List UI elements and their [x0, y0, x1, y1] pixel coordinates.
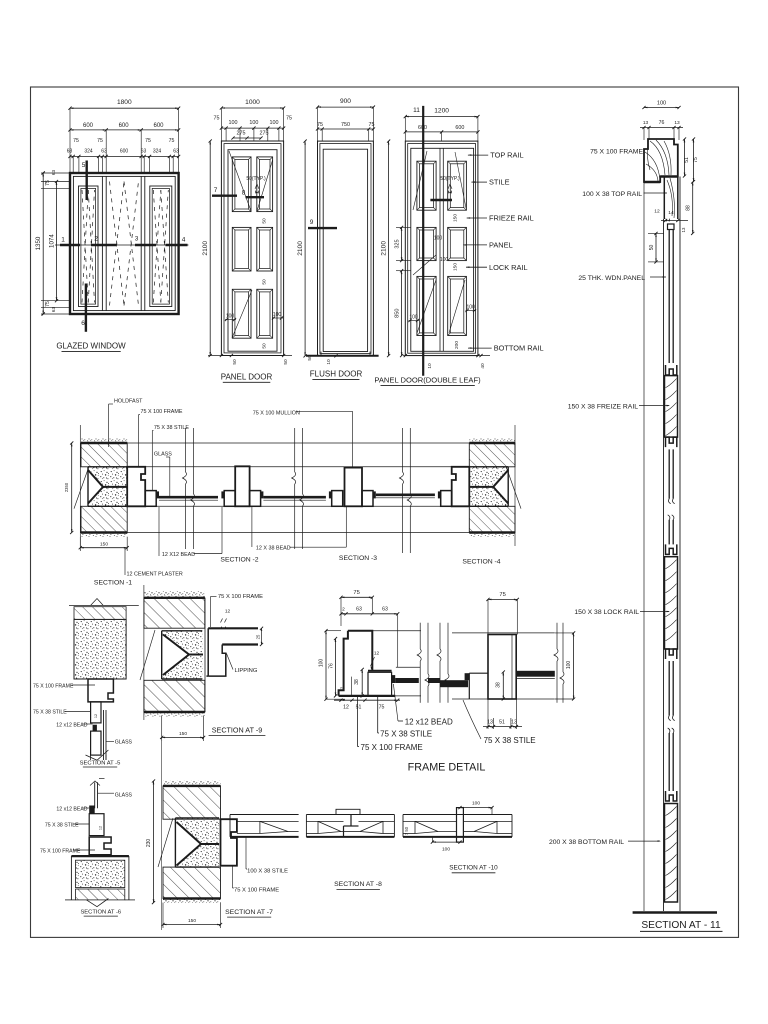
svg-text:13: 13 [674, 120, 680, 126]
dimension 100 bottom section 10 [431, 837, 462, 853]
section 8 meeting stiles plan [306, 809, 394, 837]
small dimensions double leaf door [408, 214, 476, 349]
svg-text:1800: 1800 [117, 99, 132, 106]
break symbol 3 window section [400, 428, 412, 553]
svg-text:12: 12 [343, 705, 349, 711]
dimension 38 frame detail left [354, 668, 364, 698]
svg-text:63: 63 [382, 607, 388, 613]
section 9 wall block [140, 585, 205, 720]
svg-text:100 X 38 STILE: 100 X 38 STILE [247, 869, 288, 875]
label 12 x12 BEAD frame detail [393, 684, 453, 726]
frame detail left jamb [339, 631, 419, 696]
double leaf door six panels [417, 161, 467, 335]
section 6 glass [90, 779, 105, 809]
svg-text:PANEL DOOR(DOUBLE LEAF): PANEL DOOR(DOUBLE LEAF) [374, 376, 481, 385]
svg-text:325: 325 [395, 239, 401, 248]
dimension 1200 double leaf door [404, 108, 480, 119]
svg-text:GLASS: GLASS [115, 740, 133, 746]
svg-text:12 CEMENT PLASTER: 12 CEMENT PLASTER [127, 572, 183, 578]
svg-text:600: 600 [153, 123, 164, 129]
callout 75 X 38 STILE section 5 [33, 710, 91, 716]
glazed window centre fixed pane [110, 182, 139, 306]
title PANEL DOOR DOUBLE LEAF [374, 376, 481, 386]
section 7 wall block [158, 781, 221, 903]
callout 75 X 100 FRAME section 7 [233, 866, 280, 894]
frame detail middle panel lines [428, 678, 440, 683]
svg-text:STILE: STILE [489, 178, 510, 187]
svg-text:100: 100 [442, 847, 450, 853]
section marker 11 cut line [413, 106, 423, 376]
callout BOTTOM RAIL [468, 344, 544, 353]
svg-text:12 X12 BEAD: 12 X12 BEAD [162, 552, 195, 558]
svg-text:12: 12 [654, 209, 660, 215]
sub dimensions panel door [214, 108, 293, 141]
glass line pane 1 [159, 497, 218, 500]
callout 12 x12 BEAD section 6 [56, 807, 89, 813]
freize rail connector top section 11 [666, 365, 677, 375]
extension lines left glazed window [41, 171, 70, 315]
section 7 frame [221, 819, 237, 866]
dimension 50 section 10 [404, 826, 409, 835]
section 6 sill [65, 856, 135, 907]
glass line pane 2 [263, 497, 326, 500]
svg-text:324: 324 [84, 149, 93, 155]
svg-text:38: 38 [496, 682, 502, 688]
svg-text:75: 75 [45, 180, 51, 186]
section 6 bead [89, 806, 95, 814]
dimension 75 frame detail left [339, 590, 374, 626]
callout 75 X 38 STILE section 6 [45, 823, 89, 829]
dimension 1350 glazed window [35, 171, 45, 315]
break symbol 2 window section [292, 428, 304, 549]
stile and bead at right frame [438, 491, 452, 507]
svg-text:LOCK RAIL: LOCK RAIL [489, 263, 528, 272]
dimension 12-51-75 frame detail [334, 699, 400, 711]
svg-text:11: 11 [413, 107, 420, 114]
svg-text:850: 850 [395, 308, 401, 317]
svg-text:75 X 100 FRAME: 75 X 100 FRAME [218, 594, 263, 600]
label 150 X 38 LOCK RAIL [574, 609, 670, 616]
svg-text:SECTION AT -7: SECTION AT -7 [225, 909, 273, 916]
svg-text:50(TYP.): 50(TYP.) [440, 176, 460, 182]
svg-text:75 X 100 MULLION: 75 X 100 MULLION [253, 411, 300, 417]
panel below top rail section 11 [669, 230, 673, 364]
dimension 2 frame detail [340, 686, 345, 689]
svg-text:12 x12 BEAD: 12 x12 BEAD [56, 723, 87, 729]
dimension 13-51-13 frame detail right [483, 699, 522, 729]
svg-text:275: 275 [260, 131, 269, 137]
section 9 door leaf [208, 627, 263, 646]
svg-text:75: 75 [369, 122, 375, 128]
svg-text:324: 324 [153, 149, 162, 155]
title SECTION -1 [94, 580, 132, 587]
double leaf door frame and leaves [405, 141, 478, 356]
label 150 X 38 FREIZE RAIL [568, 403, 670, 410]
svg-text:2: 2 [342, 607, 345, 613]
svg-text:75 X 38 STILE: 75 X 38 STILE [484, 736, 536, 745]
svg-text:SECTION -1: SECTION -1 [94, 580, 132, 587]
svg-text:38: 38 [354, 679, 360, 685]
panel break symbol 2 section 11 [668, 716, 675, 733]
svg-text:12: 12 [225, 609, 231, 615]
dimension 2-63-63 frame detail [339, 607, 399, 668]
svg-text:SECTION AT -10: SECTION AT -10 [449, 865, 498, 872]
stile and bead at left frame [145, 491, 159, 507]
svg-text:75 X 100 FRAME: 75 X 100 FRAME [141, 409, 183, 415]
callout 12 X 38 BEAD window section [252, 507, 346, 552]
glazing bead section 11 [668, 224, 675, 230]
callout 75 X 100 FRAME section 6 [40, 849, 95, 855]
panel lower section 11 [669, 733, 673, 791]
bottom rail section 11 [665, 804, 678, 903]
dimension 100 frame detail left [319, 629, 345, 701]
dimension 2350 window section [64, 441, 73, 534]
left wall block window section [74, 439, 127, 537]
svg-text:8: 8 [242, 190, 246, 197]
title GLAZED WINDOW [56, 342, 126, 352]
svg-text:PANEL: PANEL [489, 241, 513, 250]
break symbol 1 window section [183, 428, 195, 549]
dimension 76 frame detail [329, 637, 338, 698]
svg-text:100: 100 [270, 120, 279, 126]
dimension 600-600-600 glazed window [68, 123, 180, 132]
title SECTION AT -8 [334, 881, 382, 890]
svg-text:75 X 100 FRAME: 75 X 100 FRAME [33, 684, 74, 690]
svg-text:10: 10 [427, 363, 433, 369]
lock rail section 11 [665, 557, 678, 649]
svg-text:7 50: 7 50 [404, 826, 409, 835]
svg-text:63: 63 [101, 149, 107, 155]
svg-text:50(TYP.): 50(TYP.) [246, 176, 266, 182]
wall line section 11 [643, 182, 645, 911]
label 75 X 100 FRAME section 11 [590, 148, 643, 155]
callout PANEL [463, 241, 512, 250]
callout 75 X 38 STILE window section [152, 425, 189, 491]
svg-text:12 x12 BEAD: 12 x12 BEAD [405, 717, 453, 726]
section 5 sill break [86, 750, 109, 760]
callout GLASS section 5 [106, 740, 133, 746]
svg-text:12: 12 [99, 826, 103, 830]
svg-text:150 X 38 LOCK RAIL: 150 X 38 LOCK RAIL [574, 609, 639, 616]
glazed window left casement sash [79, 186, 99, 307]
svg-text:5: 5 [82, 162, 86, 169]
section marker 9 flush door [308, 219, 337, 228]
svg-text:75: 75 [286, 116, 292, 122]
svg-text:GLASS: GLASS [154, 452, 172, 458]
glazed window elevation frame [70, 173, 179, 314]
panel door six panels [232, 157, 272, 338]
sub dimensions 600-600 double leaf door [404, 117, 480, 142]
svg-text:63: 63 [67, 149, 73, 155]
svg-text:1200: 1200 [434, 108, 449, 115]
label 75 X 38 STILE frame detail right [463, 700, 536, 745]
dimension 38 frame detail right [496, 670, 505, 700]
svg-text:50: 50 [262, 343, 268, 349]
dimension 75 right section 11 [692, 137, 699, 183]
title SECTION -2 [220, 557, 258, 564]
svg-text:75 X 38 STILE: 75 X 38 STILE [33, 710, 67, 716]
section marker 6 glazed window [81, 284, 86, 332]
svg-text:100: 100 [249, 120, 258, 126]
svg-text:76: 76 [329, 663, 335, 669]
dimension 50 section 11 [648, 232, 664, 264]
dimension 75 bottom glazed window [45, 301, 56, 312]
section 6 frame [89, 837, 111, 855]
callout GLASS window section [154, 452, 172, 497]
svg-text:75: 75 [73, 138, 79, 144]
svg-text:51: 51 [499, 719, 505, 725]
title SECTION AT -5 [80, 761, 121, 768]
wall face lines window section [80, 443, 469, 533]
callout LOCK RAIL [466, 263, 528, 272]
svg-text:6: 6 [81, 320, 85, 327]
double leaf door swing diagonals [413, 151, 466, 333]
dimension 150 section 7 [161, 903, 222, 928]
svg-text:100: 100 [229, 120, 238, 126]
dimension 1074 glazed window [48, 180, 58, 302]
svg-text:600: 600 [418, 125, 427, 131]
svg-text:75: 75 [145, 138, 151, 144]
svg-text:75: 75 [97, 138, 103, 144]
label 200 X 38 BOTTOM RAIL [549, 839, 661, 846]
svg-text:75 X 38 STILE: 75 X 38 STILE [154, 425, 189, 431]
panel continues section 11 [669, 520, 673, 545]
frame detail left top lines [372, 631, 421, 696]
section 10 stile plan [403, 808, 512, 843]
svg-text:GLASS: GLASS [115, 793, 133, 799]
section marker 7 panel door [212, 187, 237, 196]
svg-text:63: 63 [173, 149, 179, 155]
frame section right (75x100) [452, 467, 470, 507]
callout 12 section 9 [221, 609, 231, 629]
callout 12 x12 BEAD section 5 [56, 723, 92, 729]
lock rail connector bottom section 11 [666, 649, 677, 659]
svg-text:75: 75 [317, 122, 323, 128]
svg-text:SECTION AT -8: SECTION AT -8 [334, 881, 382, 888]
svg-text:2100: 2100 [297, 241, 304, 256]
svg-text:75 X 100 FRAME: 75 X 100 FRAME [590, 148, 643, 155]
section 5 stile bead and glass [91, 702, 106, 760]
panel between rails section 11 [669, 449, 673, 498]
section marker 8 panel door [242, 190, 264, 198]
dimension 325 double leaf door [395, 226, 411, 271]
dimension 100 section 11 [642, 100, 680, 109]
svg-text:SECTION -2: SECTION -2 [220, 557, 258, 564]
svg-text:2100: 2100 [202, 241, 209, 256]
svg-text:25 THK. WDN.PANEL: 25 THK. WDN.PANEL [578, 275, 645, 282]
callout 75 X 100 FRAME window section [139, 409, 183, 467]
svg-text:200: 200 [454, 341, 460, 349]
section 5 frame [88, 679, 113, 702]
svg-text:75: 75 [693, 157, 699, 163]
title SECTION AT -6 [80, 910, 121, 917]
svg-text:SECTION AT - 11: SECTION AT - 11 [641, 920, 721, 931]
svg-text:GLAZED WINDOW: GLAZED WINDOW [56, 342, 126, 351]
svg-text:150 X 38 FREIZE RAIL: 150 X 38 FREIZE RAIL [568, 403, 638, 410]
panel door swing diagonals [229, 151, 273, 338]
dimension 100 frame detail right [555, 631, 575, 700]
label 75 X 38 STILE frame detail [378, 697, 432, 738]
dimension 100 bottom stile panel door [225, 312, 283, 321]
svg-text:75: 75 [379, 705, 385, 711]
title SECTION AT - 11 [640, 920, 723, 931]
stile and bead left of mullion 1 [221, 491, 235, 507]
svg-text:150: 150 [179, 731, 187, 737]
title SECTION AT -7 [225, 909, 273, 917]
frame section left (75x100) [127, 467, 145, 507]
svg-text:75 X 100 FRAME: 75 X 100 FRAME [234, 888, 279, 894]
svg-text:1074: 1074 [48, 234, 55, 248]
svg-text:275: 275 [237, 131, 246, 137]
title PANEL DOOR [221, 373, 273, 383]
panel below lock rail section 11 [669, 661, 673, 716]
svg-text:750: 750 [341, 122, 350, 128]
svg-text:75 X 38 STILE: 75 X 38 STILE [380, 729, 432, 738]
stile and bead left of mullion 2 [329, 491, 343, 507]
threshold line flush door [306, 352, 379, 365]
svg-text:1000: 1000 [245, 99, 260, 106]
svg-text:40: 40 [480, 363, 486, 369]
svg-text:4: 4 [182, 237, 186, 244]
svg-text:PANEL DOOR: PANEL DOOR [221, 373, 273, 382]
svg-text:150: 150 [188, 918, 196, 924]
svg-text:76: 76 [659, 120, 665, 126]
connector line sections 9-7 [161, 741, 163, 781]
svg-text:3: 3 [135, 236, 139, 243]
callout 75 X 100 FRAME section 5 [33, 684, 95, 690]
svg-text:12: 12 [374, 651, 380, 657]
svg-text:10: 10 [326, 359, 332, 365]
glass line pane 3 [376, 495, 435, 498]
svg-text:2350: 2350 [64, 482, 69, 492]
svg-text:50: 50 [262, 218, 268, 224]
dimension 150 left wall [79, 537, 129, 551]
title FLUSH DOOR [310, 370, 363, 380]
right wall block window section [469, 439, 521, 537]
svg-text:SECTION AT -5: SECTION AT -5 [80, 761, 121, 767]
section 7 door stile plan [230, 815, 299, 837]
label 75 X 100 FRAME frame detail [358, 697, 423, 752]
sub dimensions 63-324-63-600 glazed window [67, 138, 180, 173]
svg-text:LIPPING: LIPPING [235, 668, 258, 674]
svg-text:BOTTOM RAIL: BOTTOM RAIL [494, 344, 544, 353]
svg-text:600: 600 [120, 149, 129, 155]
svg-text:14: 14 [668, 210, 674, 216]
dimension 230 section 7 [146, 779, 155, 904]
svg-text:600: 600 [455, 125, 464, 131]
frame detail right stile [440, 633, 555, 699]
section marker 5 glazed window [82, 161, 87, 201]
dimension 88 section 11 [686, 180, 695, 235]
svg-text:1350: 1350 [35, 236, 42, 250]
svg-text:2: 2 [94, 236, 98, 243]
section markers 1 2 3 4 glazed window [55, 236, 189, 246]
bottom dimension line panel door [208, 354, 292, 365]
dimension 150 section 9 [160, 716, 205, 741]
door face lines section 11 [664, 177, 681, 912]
svg-text:12 X 38 BEAD: 12 X 38 BEAD [256, 546, 291, 552]
svg-text:9: 9 [310, 219, 314, 226]
label 50 TYP panel door [246, 176, 266, 193]
svg-text:12 x12 BEAD: 12 x12 BEAD [56, 807, 87, 813]
panel door frame and leaf [221, 141, 283, 356]
sub dimensions 75-750-75 flush door [316, 107, 375, 141]
sub dimension 13-76-13 section 11 [640, 120, 683, 140]
wall face vertical extensions window section [80, 425, 515, 546]
svg-text:2100: 2100 [380, 241, 387, 256]
svg-text:75: 75 [169, 138, 175, 144]
callout 12 X12 BEAD window section [159, 507, 222, 558]
title SECTION AT -10 [449, 865, 498, 873]
svg-text:600: 600 [119, 123, 130, 129]
svg-text:HOLDFAST: HOLDFAST [114, 399, 143, 405]
callout HOLDFAST [109, 399, 144, 448]
ground line section 11 [633, 911, 717, 914]
extension verticals 1800 dim glazed window [70, 108, 179, 156]
freize rail section 11 [665, 376, 678, 438]
title SECTION -4 [462, 559, 500, 566]
callout STILE [471, 178, 509, 187]
dimension 850 double leaf door [395, 269, 404, 357]
svg-text:100: 100 [657, 100, 666, 106]
svg-text:50: 50 [649, 245, 655, 251]
svg-text:100 X 38 TOP RAIL: 100 X 38 TOP RAIL [582, 191, 642, 198]
label 50 TYP double leaf door [440, 176, 460, 193]
svg-text:100: 100 [472, 801, 480, 807]
callout 12 CEMENT PLASTER [125, 548, 183, 578]
callout GLASS section 6 [98, 793, 133, 799]
svg-text:63: 63 [356, 607, 362, 613]
svg-text:75 X 100 FRAME: 75 X 100 FRAME [40, 849, 81, 855]
label 25 THK WDN PANEL [578, 275, 666, 282]
section 6 stile [89, 814, 104, 836]
svg-text:900: 900 [340, 98, 351, 105]
svg-text:50: 50 [307, 355, 313, 361]
lock rail connector top section 11 [666, 544, 677, 554]
svg-text:100: 100 [566, 661, 572, 670]
section 5 lintel and wall [69, 599, 139, 680]
svg-text:7: 7 [214, 187, 218, 194]
dimension 1000 panel door [220, 99, 285, 110]
svg-text:75: 75 [214, 116, 220, 122]
svg-text:TOP RAIL: TOP RAIL [490, 151, 523, 160]
dimension 2100 flush door [297, 140, 307, 358]
svg-text:230: 230 [146, 839, 152, 848]
svg-text:12: 12 [94, 714, 98, 718]
callout 75 X 100 MULLION [253, 411, 353, 468]
svg-text:63: 63 [51, 170, 56, 176]
svg-text:FRIEZE RAIL: FRIEZE RAIL [489, 214, 534, 223]
freize rail connector bottom section 11 [666, 437, 677, 447]
top rail section 11 (100x38) [654, 177, 688, 233]
title FRAME DETAIL [408, 761, 486, 773]
break symbol frame detail right [554, 623, 564, 703]
dimension 75 top glazed window [45, 170, 56, 186]
bottom dimension line double leaf door [403, 354, 490, 369]
svg-text:50: 50 [262, 279, 268, 285]
svg-text:FLUSH DOOR: FLUSH DOOR [310, 370, 363, 379]
bottom rail connector section 11 [666, 791, 677, 801]
svg-text:75 X 100 FRAME: 75 X 100 FRAME [361, 743, 423, 752]
svg-text:200 X 38 BOTTOM RAIL: 200 X 38 BOTTOM RAIL [549, 839, 624, 846]
section 9 frame [206, 628, 225, 676]
svg-text:150: 150 [453, 263, 459, 271]
svg-text:50: 50 [283, 359, 289, 365]
title SECTION -3 [339, 555, 377, 562]
svg-text:75: 75 [499, 592, 505, 598]
svg-text:150: 150 [453, 214, 459, 222]
svg-text:FRAME DETAIL: FRAME DETAIL [408, 761, 486, 773]
